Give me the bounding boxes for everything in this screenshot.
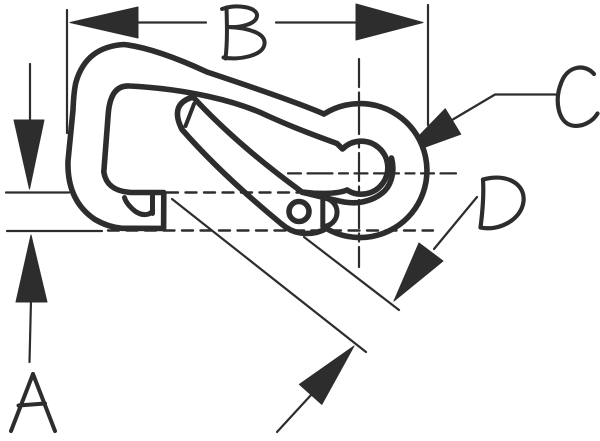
dimension A lower line <box>30 300 32 362</box>
dimension A upper arrowhead (down) <box>14 120 44 189</box>
dimension B left extension line <box>66 10 68 133</box>
gate end cap slit <box>186 104 195 126</box>
gate keeper arc <box>323 198 337 227</box>
eye horizontal center line <box>288 172 456 174</box>
dimension A bottom extension line <box>7 230 102 232</box>
dimension D leader line <box>434 197 477 249</box>
hidden line lower (y=230.5) <box>108 229 433 231</box>
dimension B line right segment <box>276 21 360 23</box>
label D <box>481 178 524 229</box>
dimension D extension line upper (L2) <box>304 237 399 310</box>
label C <box>558 68 598 126</box>
dimension A top extension line <box>6 191 69 193</box>
dimension C arrowhead <box>399 109 461 157</box>
gate rivet <box>289 202 309 222</box>
dimension B right extension line <box>427 5 429 125</box>
hidden line upper (y=192.5) <box>167 191 299 193</box>
dimension B left arrowhead <box>70 7 138 38</box>
dimension D extension line lower (L1) <box>172 199 366 352</box>
eye vertical center line <box>358 59 360 267</box>
nose catch bar <box>150 194 155 214</box>
gate keeper bar <box>320 198 325 227</box>
dimension C leader line <box>452 95 556 121</box>
dimension B right arrowhead <box>356 4 423 40</box>
dimension A upper line <box>29 64 31 122</box>
label A <box>11 374 55 431</box>
dimension D upper arrowhead <box>394 243 443 301</box>
gate base lobe around eye hole <box>302 158 393 203</box>
nose catch curl <box>125 198 153 215</box>
snap hook body outline (plate, eye disc, gate bar) <box>68 45 427 238</box>
dimension A lower arrowhead (up) <box>16 235 47 302</box>
dimension D lower arrowhead <box>299 346 354 404</box>
dimension B line left segment <box>136 21 206 23</box>
dimension D lower arrow tail <box>277 395 311 432</box>
label B <box>222 6 265 58</box>
